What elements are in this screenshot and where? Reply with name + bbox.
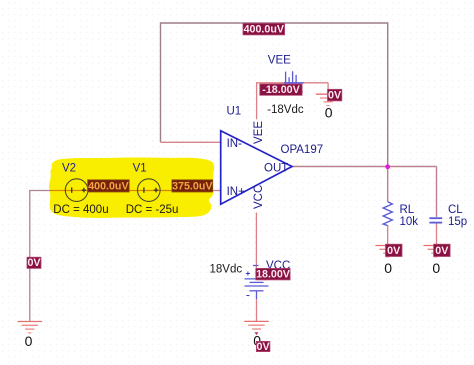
svg-text:18Vdc: 18Vdc bbox=[210, 263, 243, 275]
svg-text:0V: 0V bbox=[435, 245, 449, 257]
svg-text:375.0uV: 375.0uV bbox=[172, 180, 213, 192]
svg-text:U1: U1 bbox=[227, 106, 242, 118]
svg-text:400.0uV: 400.0uV bbox=[244, 24, 285, 36]
svg-text:OPA197: OPA197 bbox=[281, 144, 324, 156]
svg-text:-18.00V: -18.00V bbox=[262, 84, 300, 96]
svg-text:10k: 10k bbox=[400, 216, 419, 228]
svg-text:VEE: VEE bbox=[253, 121, 265, 144]
svg-text:DC = -25u: DC = -25u bbox=[126, 204, 179, 216]
svg-text:VCC: VCC bbox=[253, 185, 265, 209]
svg-text:0V: 0V bbox=[27, 257, 41, 269]
svg-text:V1: V1 bbox=[133, 162, 147, 174]
svg-text:RL: RL bbox=[400, 204, 415, 216]
svg-text:15p: 15p bbox=[448, 216, 467, 228]
svg-text:400.0uV: 400.0uV bbox=[88, 180, 129, 192]
svg-text:VEE: VEE bbox=[268, 54, 291, 66]
svg-text:IN-: IN- bbox=[227, 138, 243, 150]
svg-text:-18Vdc: -18Vdc bbox=[267, 104, 304, 116]
svg-text:0V: 0V bbox=[387, 245, 401, 257]
svg-text:0V: 0V bbox=[328, 90, 342, 102]
svg-text:V2: V2 bbox=[62, 162, 76, 174]
svg-text:0: 0 bbox=[432, 260, 440, 276]
svg-text:CL: CL bbox=[448, 204, 463, 216]
svg-text:0: 0 bbox=[384, 260, 392, 276]
svg-text:IN+: IN+ bbox=[227, 186, 246, 198]
svg-text:0: 0 bbox=[25, 333, 33, 349]
svg-text:18.00V: 18.00V bbox=[256, 269, 291, 281]
svg-text:0V: 0V bbox=[257, 341, 271, 353]
svg-text:0: 0 bbox=[325, 105, 333, 121]
svg-text:DC = 400u: DC = 400u bbox=[53, 204, 108, 216]
svg-text:OUT: OUT bbox=[264, 162, 288, 174]
